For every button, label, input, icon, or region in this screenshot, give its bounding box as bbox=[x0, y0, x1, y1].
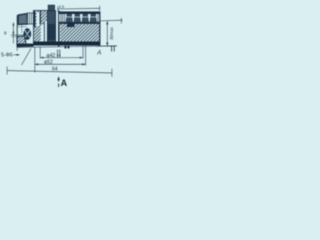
svg-text:A: A bbox=[96, 51, 101, 57]
svg-text:64: 64 bbox=[52, 66, 58, 72]
svg-text:φ52: φ52 bbox=[44, 60, 53, 66]
svg-text:3.5: 3.5 bbox=[59, 4, 65, 9]
svg-text:A: A bbox=[61, 78, 68, 88]
svg-text:30max: 30max bbox=[109, 26, 114, 40]
svg-text:5-Φ6: 5-Φ6 bbox=[1, 53, 13, 59]
svg-text:φ42: φ42 bbox=[47, 53, 56, 59]
svg-text:8: 8 bbox=[4, 31, 7, 36]
